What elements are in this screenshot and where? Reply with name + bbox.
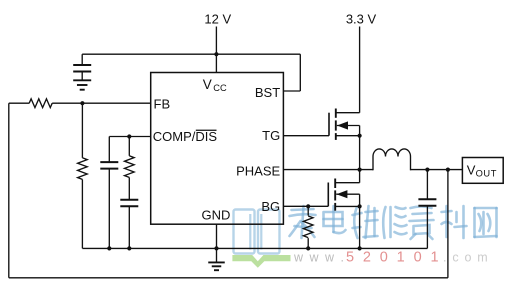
node Q1 source junction <box>358 134 362 138</box>
transistor Q1 channel bar <box>335 109 337 140</box>
wire VOUT segment <box>411 169 463 171</box>
transistor Q2 drain stub <box>335 182 359 184</box>
node PHASE junction <box>358 168 362 172</box>
svg-text:12 V: 12 V <box>204 11 231 26</box>
node Q2 rail junction <box>358 246 362 250</box>
svg-text:CC: CC <box>213 83 227 93</box>
watermark url www.520101.com <box>293 250 489 266</box>
label 12 V <box>204 11 231 26</box>
wire C4 top lead <box>426 170 428 200</box>
node FB junction <box>80 101 84 105</box>
wire BG pin <box>283 205 328 207</box>
wire FB left segment <box>9 102 30 104</box>
node GND rail junction <box>214 246 218 250</box>
capacitor C1 <box>73 65 91 72</box>
resistor R3 <box>125 156 135 178</box>
capacitor C4 <box>418 199 436 206</box>
watermark character 5 <box>410 207 434 240</box>
transistor Q2 gate bar <box>327 183 329 207</box>
svg-text:PHASE: PHASE <box>236 163 280 178</box>
wire feedback right vertical <box>447 170 449 278</box>
svg-text:5 2 0 1 0 1: 5 2 0 1 0 1 <box>346 250 441 266</box>
pin label GND <box>202 208 231 223</box>
wire GND lead <box>216 224 218 262</box>
wire R4 top lead <box>307 206 309 215</box>
node COMP junction <box>127 134 131 138</box>
wire ground rail <box>82 247 427 249</box>
transistor Q2 body arrow <box>336 190 359 206</box>
capacitor C3 <box>120 200 138 207</box>
node rail-C2 junction <box>107 246 111 250</box>
wire C3 bottom lead <box>128 206 130 248</box>
watermark character 2 <box>324 206 346 233</box>
IC U1 controller box <box>151 73 284 225</box>
label 3.3 V <box>346 11 377 26</box>
svg-text:. c o m: . c o m <box>443 251 489 265</box>
resistor R4 <box>303 216 313 238</box>
resistor R1 feedback <box>29 99 52 108</box>
transistor Q2 source stub <box>335 205 359 207</box>
node 12V junction <box>214 52 218 56</box>
node R4 rail junction <box>306 246 310 250</box>
wire FB right segment <box>52 102 151 104</box>
watermark character 7 <box>475 208 497 237</box>
pin label BG <box>261 199 280 214</box>
resistor R2 <box>78 158 88 180</box>
VOUT output box <box>462 158 503 184</box>
watermark character 6 <box>442 206 467 238</box>
svg-text:TG: TG <box>262 128 280 143</box>
transistor Q1 source stub <box>336 135 360 137</box>
wire 12V lead <box>215 27 217 55</box>
wire feedback left vertical <box>8 103 10 278</box>
wire C2 top lead <box>108 137 110 163</box>
node Q2 source junction <box>358 204 362 208</box>
svg-text:BST: BST <box>255 85 280 100</box>
wire R4 bottom lead <box>307 238 309 248</box>
wire Q2 source to rail <box>359 206 361 248</box>
svg-text:GND: GND <box>202 208 231 223</box>
watermark character 3 <box>353 206 378 238</box>
transistor Q1 drain stub <box>336 112 360 114</box>
pin label FB <box>154 96 171 111</box>
wire R2 top lead <box>81 103 83 158</box>
node rail-C3 junction <box>127 246 131 250</box>
svg-text:V: V <box>203 77 212 92</box>
wire C2 bottom lead <box>108 169 110 249</box>
wire Q2 drain from PHASE <box>359 170 361 183</box>
ground C1 <box>73 80 91 89</box>
wire Q1 source to PHASE <box>359 136 361 170</box>
watermark character 1 <box>290 206 316 238</box>
wire feedback bottom <box>9 277 448 279</box>
node output cap junction <box>425 168 429 172</box>
capacitor C2 <box>100 162 118 169</box>
pin label COMP/DIS <box>153 129 218 144</box>
watermark character 4 <box>383 207 406 238</box>
pin label VCC <box>203 77 227 93</box>
watermark book logo <box>234 210 280 254</box>
pin label BST <box>255 85 280 100</box>
svg-text:OUT: OUT <box>476 168 497 178</box>
label VOUT <box>467 163 497 179</box>
wire 3.3V lead <box>359 27 361 113</box>
wire COMP pin <box>109 136 150 138</box>
transistor Q2 channel bar <box>334 179 336 211</box>
wire TG pin <box>283 135 329 137</box>
svg-text:COMP/DIS: COMP/DIS <box>153 129 218 144</box>
svg-text:V: V <box>467 163 476 178</box>
wire L1 right riser <box>410 157 412 171</box>
wire 12V rail <box>82 53 300 55</box>
wire L1 left riser <box>372 157 374 171</box>
wire R3 to C3 <box>128 177 130 199</box>
svg-text:3.3 V: 3.3 V <box>346 11 377 26</box>
transistor Q1 body arrow <box>337 121 360 135</box>
ground main <box>208 262 225 270</box>
pin label PHASE <box>236 163 280 178</box>
wire BST vertical <box>299 54 301 91</box>
wire R3 top lead <box>128 137 130 156</box>
wire VCC lead <box>215 54 217 72</box>
wire C1 bottom lead <box>81 72 83 81</box>
wire C1 top lead <box>81 54 83 65</box>
svg-text:w w w .: w w w . <box>293 251 345 265</box>
svg-text:FB: FB <box>154 96 171 111</box>
node feedback junction <box>446 168 450 172</box>
node BG resistor junction <box>306 204 310 208</box>
inductor L1 <box>373 149 411 157</box>
pin label TG <box>262 128 280 143</box>
svg-text:BG: BG <box>261 199 280 214</box>
transistor Q1 gate bar <box>328 113 330 136</box>
wire BST pin <box>283 90 300 92</box>
wire PHASE pin <box>283 169 373 171</box>
wire R2 bottom lead <box>81 179 83 248</box>
watermark green ribbon <box>232 255 290 268</box>
wire C4 bottom lead <box>426 206 428 249</box>
